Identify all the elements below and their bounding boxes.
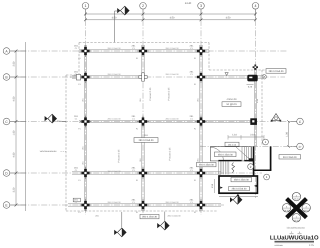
dim 0.25 below B4: [247, 84, 254, 86]
leader for bottom marker: [121, 212, 123, 228]
beam grid 2 lower: [141, 122, 143, 212]
section marker top: [117, 6, 129, 15]
svg-text:3.20: 3.20: [13, 187, 16, 192]
svg-text:2B1 0.15x0.30: 2B1 0.15x0.30: [108, 201, 122, 204]
dimension tick: [15, 50, 18, 53]
svg-text:4.50: 4.50: [112, 17, 117, 20]
tank heavy rectangle: [219, 176, 257, 193]
svg-text:1.00: 1.00: [13, 130, 16, 135]
left dimension line 2: [25, 42, 27, 211]
beam end detail left of E1: [73, 198, 80, 202]
slab edge, bottom: [66, 210, 218, 212]
column E1: [80, 199, 92, 211]
svg-text:4.50: 4.50: [170, 17, 175, 20]
grid line C (horizontal): [10, 121, 297, 123]
dimension tick: [200, 13, 203, 16]
column B1: [80, 71, 92, 83]
break line squiggle: [232, 163, 235, 173]
grid bubble 2: [142, 9, 144, 20]
title underline 2: [275, 242, 315, 244]
grid bubble 4: [255, 9, 257, 20]
grid line A (horizontal): [10, 50, 288, 52]
label box tank lower: [229, 187, 250, 191]
svg-text:4: 4: [255, 4, 257, 8]
column E3: [195, 199, 207, 211]
slab edge, top of right wing: [209, 69, 281, 71]
beam grid 1: [83, 45, 85, 211]
svg-text:2B1 0.15x0.30: 2B1 0.15x0.30: [108, 47, 122, 50]
label box right of stair: [279, 155, 301, 159]
beam row B east: [201, 75, 262, 77]
column D3: [195, 167, 207, 179]
top dimension line 1: [86, 13, 256, 15]
beam grid 4: [253, 68, 255, 147]
beam row D: [72, 171, 221, 173]
svg-text:2B1 0.15x0.30: 2B1 0.15x0.30: [166, 201, 180, 204]
svg-text:2B1 0.15: 2B1 0.15: [228, 143, 237, 146]
column C2: [137, 116, 149, 128]
section marker left: [45, 114, 57, 123]
dimension tick: [15, 172, 18, 175]
dimension tick: [142, 13, 145, 16]
column B2 (outline): [139, 73, 147, 81]
column D2: [137, 167, 149, 179]
grid bubble C-prime (right): [289, 146, 297, 148]
grid line 1 (vertical): [85, 10, 87, 216]
legend pile circle right: [302, 204, 310, 212]
svg-text:2: 2: [142, 4, 144, 8]
leader for left marker: [57, 120, 66, 122]
label box bay 3-4 slab: [222, 102, 241, 107]
svg-text:2B1 0.15x0.30: 2B1 0.15x0.30: [232, 187, 248, 190]
svg-text:2.50: 2.50: [13, 61, 16, 66]
dark first step: [249, 158, 254, 161]
svg-text:3: 3: [200, 4, 202, 8]
grid line B (horizontal): [10, 76, 285, 78]
svg-text:2B1 0.15x0.30: 2B1 0.15x0.30: [108, 170, 122, 173]
svg-text:B1 0.15x0.30: B1 0.15x0.30: [283, 156, 297, 159]
svg-text:2B1 0.15x0.30: 2B1 0.15x0.30: [166, 117, 180, 120]
title underline 1: [275, 240, 315, 242]
grid bubble E: [10, 204, 26, 206]
slab edge, right wing right side: [261, 70, 263, 146]
svg-text:2B1 0.15x0.30: 2B1 0.15x0.30: [218, 153, 234, 156]
svg-text:1.10: 1.10: [232, 134, 237, 137]
svg-text:2B1 0.15x0.30: 2B1 0.15x0.30: [269, 70, 285, 73]
slab edge, left step: [66, 74, 79, 76]
beam row B west: [72, 75, 143, 77]
svg-text:W-10: W-10: [294, 198, 298, 201]
column B3: [195, 71, 207, 83]
svg-text:2B1 0.15x0.30: 2B1 0.15x0.30: [166, 73, 180, 76]
svg-text:2B1 0.15x0.30: 2B1 0.15x0.30: [142, 216, 158, 219]
grid bubble 3: [200, 9, 202, 20]
stair wall right (heavy): [270, 146, 272, 170]
grid line E (horizontal): [10, 204, 225, 206]
vertical dim left of tank: [214, 179, 216, 193]
dimension tick: [15, 76, 18, 79]
svg-text:Precast 0.05: Precast 0.05: [118, 149, 121, 163]
svg-text:13.40: 13.40: [185, 2, 192, 5]
svg-text:1: 1: [85, 4, 87, 8]
label box top-left of stair: [225, 142, 239, 146]
column E2: [137, 199, 149, 211]
stair wall left (heavy): [253, 146, 255, 175]
grid line 4 (vertical): [255, 10, 257, 199]
column D1: [80, 167, 92, 179]
dimension tick: [15, 204, 18, 207]
slab edge, left upper: [78, 43, 80, 76]
slab edge, top: [79, 42, 209, 44]
grid bubble 1: [85, 9, 87, 20]
grid line 2 (vertical): [142, 10, 144, 216]
svg-text:iaivuaalnsoasuaso: iaivuaalnsoasuaso: [287, 227, 306, 230]
stair quarter-turn arc: [211, 147, 224, 160]
column A2: [137, 45, 149, 57]
dimension tick: [84, 13, 87, 16]
leader for bottom small marker: [164, 212, 166, 222]
circled number 2: [248, 164, 254, 170]
dimension tick: [254, 13, 257, 16]
svg-text:2B1 0.15x0.30: 2B1 0.15x0.30: [139, 139, 155, 142]
stair wall bottom (heavy): [253, 169, 272, 171]
label box tank upper: [231, 177, 252, 181]
dim 2.10 above stair: [228, 136, 264, 138]
svg-text:vuivnnuuasuuiu: vuivnnuuasuuiu: [40, 150, 57, 153]
svg-text:W-10: W-10: [284, 209, 288, 212]
section marker tank bottom: [230, 195, 242, 204]
svg-text:1:75: 1:75: [309, 244, 314, 247]
column A1: [80, 45, 92, 57]
grid bubble C: [10, 121, 26, 123]
grid bubble D: [10, 172, 26, 174]
beam end detail left of B1: [76, 74, 80, 80]
left dimension line 1: [15, 51, 17, 205]
small cross above column B4: [253, 65, 258, 70]
grid bubble A: [10, 50, 26, 52]
svg-text:Precast 0.05: Precast 0.05: [149, 87, 152, 101]
label box bay C center: [134, 138, 158, 143]
svg-text:4.50: 4.50: [13, 96, 16, 101]
svg-text:S1 @0.15: S1 @0.15: [226, 103, 237, 106]
svg-text:Precast 0.05: Precast 0.05: [168, 87, 171, 101]
column C3: [195, 116, 207, 128]
stair room outline: [210, 147, 251, 161]
svg-text:C': C': [299, 145, 302, 149]
svg-text:LLUaUWUGUa1O: LLUaUWUGUa1O: [270, 235, 319, 242]
leader for top marker: [114, 11, 116, 42]
slab edge, left lower: [65, 75, 67, 211]
legend pile circle top: [292, 192, 300, 200]
open triangle marker on beam B: [225, 73, 228, 76]
column C4 (dark): [250, 118, 257, 125]
svg-text:4.50x4.50: 4.50x4.50: [226, 98, 237, 101]
legend pile circle bottom: [292, 214, 300, 222]
svg-text:2B1 0.15x0.30: 2B1 0.15x0.30: [168, 215, 182, 218]
circled number 1: [264, 174, 270, 180]
beam grid 2 upper: [141, 45, 143, 77]
pile symbol near B4: [262, 75, 266, 79]
label box bottom 1: [140, 214, 159, 218]
beam row A: [79, 49, 209, 51]
svg-text:2.10: 2.10: [250, 134, 255, 137]
grid line 3 (vertical): [200, 10, 202, 216]
svg-text:2B1 0.15x0.30: 2B1 0.15x0.30: [108, 73, 122, 76]
column C1: [80, 116, 92, 128]
label box stair upper: [215, 152, 237, 157]
stair mid wall (heavy, under upper flight): [218, 160, 241, 162]
grid bubble C (right): [289, 121, 297, 123]
beam grid 3: [199, 45, 201, 211]
svg-text:Precast 0.05: Precast 0.05: [169, 147, 172, 161]
beam row E: [68, 203, 221, 205]
svg-text:2B1 0.15x0.30: 2B1 0.15x0.30: [166, 47, 180, 50]
dimension C to C-prime: [288, 122, 290, 147]
level symbol on row C: [272, 114, 281, 121]
grid bubble B: [10, 76, 26, 78]
svg-text:4.50: 4.50: [226, 17, 231, 20]
svg-text:W-10: W-10: [304, 209, 308, 212]
legend X cross: [287, 199, 307, 218]
legend pile circle left: [282, 204, 290, 212]
stair diagonal: [236, 147, 251, 161]
grid line D (horizontal): [10, 172, 262, 174]
grid line C-prime (horizontal, right part only): [200, 146, 297, 148]
column B4 (hatched footing): [247, 75, 257, 82]
circled number 1: [263, 139, 269, 145]
column A3: [195, 45, 207, 57]
label box left of stair: [197, 162, 217, 166]
dimension tick: [15, 120, 18, 123]
svg-text:W-10: W-10: [294, 219, 298, 222]
label box row B right end: [266, 69, 286, 74]
beam row C: [79, 119, 257, 121]
svg-text:2B1 0.15x0.30: 2B1 0.15x0.30: [108, 117, 122, 120]
tank wall arrow right: [254, 185, 257, 187]
section marker bottom small: [157, 221, 169, 230]
svg-text:4B2 0.15x0.30: 4B2 0.15x0.30: [234, 179, 250, 182]
lower stair flight treads: [218, 161, 220, 174]
top dimension line 2: [86, 19, 256, 21]
svg-text:4.00: 4.00: [13, 152, 16, 157]
small triangle below tank: [236, 194, 239, 196]
stair treads (vertical): [241, 147, 243, 161]
svg-text:unsnaou: unsnaou: [275, 244, 284, 247]
tank wall arrow left: [220, 187, 223, 189]
dim below tank: [219, 195, 258, 197]
section marker bottom: [114, 228, 126, 237]
svg-text:2B1 0.15x0.30: 2B1 0.15x0.30: [199, 164, 215, 167]
svg-text:1.00: 1.00: [285, 132, 288, 137]
slab edge, step at grid 3: [208, 43, 210, 71]
